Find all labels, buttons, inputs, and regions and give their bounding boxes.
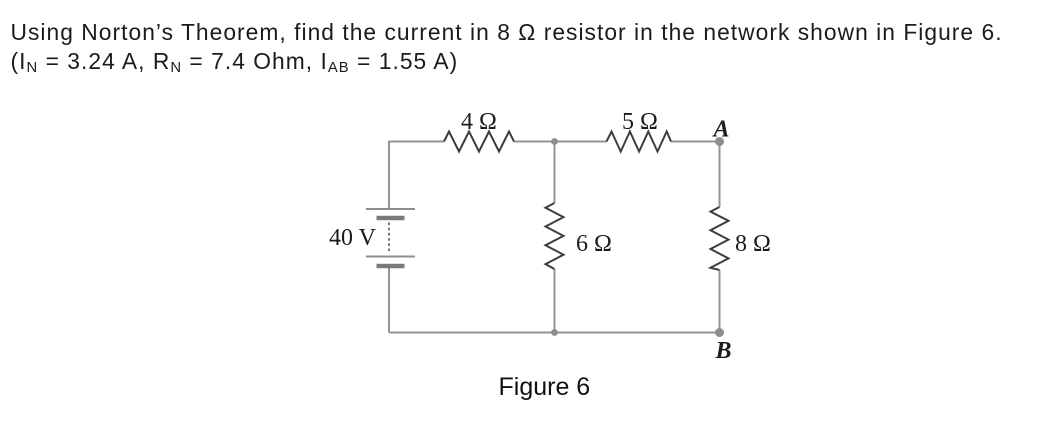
resistor R2 5 ohm [607,132,672,152]
wire left-bottom: battery to bottom rail [388,267,390,333]
wire middle branch upper [554,142,556,204]
wire right branch lower [719,270,721,333]
node junction middle-top [551,138,558,145]
node A dot [715,137,724,146]
node B dot [715,328,724,337]
battery dotted cell continuation [388,223,390,252]
svg-text:A: A [712,116,730,142]
svg-text:B: B [715,338,732,364]
resistor R1 4 ohm [444,132,514,152]
battery negative plate (top short thick) [377,216,405,221]
battery V1 40 V (multi-cell) [366,209,415,266]
svg-text:40 V: 40 V [329,225,377,251]
problem text line 1 and 2 [11,18,1031,75]
wire top-left: left corner to 4-ohm resistor [389,142,444,210]
battery positive plate (top long) [366,208,415,210]
battery negative plate (bottom short thick) [377,264,405,269]
svg-text:8 Ω: 8 Ω [735,231,771,257]
resistor R4 8 ohm (vertical) [711,207,729,270]
caption Figure 6 [0,372,1038,374]
svg-text:4 Ω: 4 Ω [461,109,497,135]
resistor R3 6 ohm (vertical) [546,203,564,269]
wire top-right: 5-ohm to node A [671,141,720,143]
wire right branch upper [719,142,721,208]
wire middle branch lower [554,269,556,333]
wire top-middle: 4-ohm to 5-ohm across node [514,141,607,143]
svg-text:5 Ω: 5 Ω [622,109,658,135]
node junction middle-bottom [551,329,558,336]
svg-text:6 Ω: 6 Ω [576,231,612,257]
battery positive plate (bottom long) [366,256,415,258]
wire bottom rail [389,332,720,334]
